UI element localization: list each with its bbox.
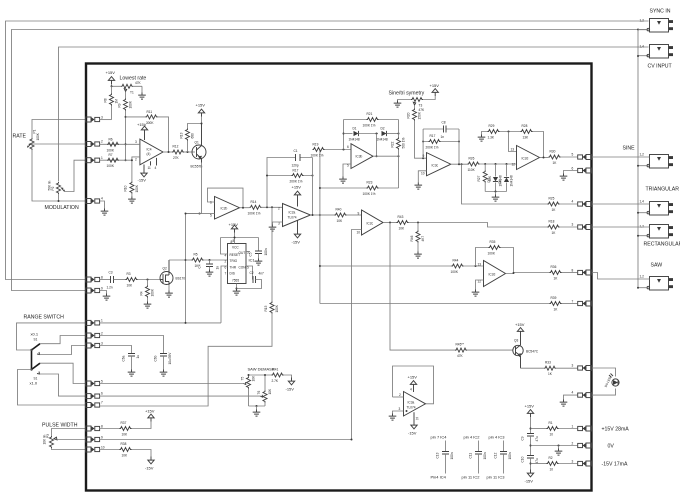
wire bus timing node xyxy=(185,214,187,323)
svg-text:13: 13 xyxy=(511,148,515,152)
svg-text:THR: THR xyxy=(230,266,237,270)
wire IC2a out to bus xyxy=(311,214,320,216)
svg-text:1n: 1n xyxy=(216,266,220,270)
diode D4 xyxy=(506,164,508,177)
svg-text:BC557B: BC557B xyxy=(191,165,203,169)
pin CN 2 0V xyxy=(578,443,592,448)
svg-text:100n: 100n xyxy=(264,248,268,255)
svg-text:R6: R6 xyxy=(109,137,113,141)
svg-text:+15V: +15V xyxy=(145,409,155,414)
svg-text:10K: 10K xyxy=(337,219,344,223)
wire 0V row xyxy=(531,445,578,447)
op-amp IC3b xyxy=(351,144,373,169)
wire IC2d out xyxy=(540,157,549,159)
svg-text:R21: R21 xyxy=(367,112,373,116)
wiper T3 xyxy=(413,102,415,105)
svg-text:47u: 47u xyxy=(535,458,539,464)
svg-text:RECTANGULAR: RECTANGULAR xyxy=(644,242,680,248)
op-amp IC3c xyxy=(427,153,451,176)
svg-text:13: 13 xyxy=(478,263,482,267)
svg-text:100K 1%: 100K 1% xyxy=(363,124,376,128)
svg-text:IC2a: IC2a xyxy=(289,211,296,215)
svg-text:-15V: -15V xyxy=(525,479,534,484)
svg-text:47K: 47K xyxy=(135,81,142,85)
svg-text:D3: D3 xyxy=(487,178,491,182)
pin CN 1 xyxy=(86,158,100,163)
wire IC3a feedback box xyxy=(393,366,434,404)
svg-text:Q1: Q1 xyxy=(195,141,199,145)
svg-text:200K 1%: 200K 1% xyxy=(290,180,303,184)
svg-text:T1: T1 xyxy=(130,91,134,95)
wire P1 top to pin xyxy=(32,120,86,139)
svg-text:C11: C11 xyxy=(469,453,473,459)
svg-text:1,2: 1,2 xyxy=(640,275,645,279)
svg-text:P2: P2 xyxy=(51,186,55,190)
svg-text:100K: 100K xyxy=(107,164,115,168)
wire cv sleeve stub xyxy=(638,55,649,57)
svg-text:2: 2 xyxy=(101,140,103,144)
svg-text:500 1%: 500 1% xyxy=(402,138,406,149)
svg-text:-15V: -15V xyxy=(408,431,417,436)
svg-text:R10: R10 xyxy=(124,185,128,191)
wire IC4d output xyxy=(163,151,172,153)
svg-text:100K: 100K xyxy=(275,304,279,312)
svg-text:R27: R27 xyxy=(477,175,481,181)
svg-text:R36: R36 xyxy=(551,265,557,269)
wire clamp bottom rail xyxy=(485,191,506,193)
wire P1 wiper to pin xyxy=(32,143,86,145)
op-amp IC2c comparator xyxy=(362,210,384,235)
resistor R17b xyxy=(423,141,459,143)
svg-text:8: 8 xyxy=(231,240,233,244)
svg-text:10: 10 xyxy=(421,172,425,176)
svg-text:8: 8 xyxy=(101,425,103,429)
resistor R11 xyxy=(126,116,146,118)
wire sync-in sleeve bus xyxy=(12,30,649,291)
resistor R21 xyxy=(344,119,399,121)
resistor R5 xyxy=(192,258,204,262)
svg-text:4: 4 xyxy=(572,200,574,204)
wire IC2b -in xyxy=(200,213,215,215)
power -15V IC4d xyxy=(143,165,145,170)
svg-text:R35: R35 xyxy=(490,240,496,244)
pin CN 8 saw xyxy=(578,270,592,275)
svg-text:+15V: +15V xyxy=(292,185,302,190)
svg-text:9: 9 xyxy=(423,154,425,158)
svg-text:pin 11 IC3: pin 11 IC3 xyxy=(487,475,506,480)
svg-text:-15V: -15V xyxy=(138,178,147,183)
svg-text:SAW DEMASK: SAW DEMASK xyxy=(248,367,275,372)
svg-text:2: 2 xyxy=(278,207,280,211)
svg-text:5: 5 xyxy=(101,380,103,384)
svg-text:Lowest rate: Lowest rate xyxy=(120,76,147,82)
capacitor C10b xyxy=(527,456,534,459)
svg-text:100K: 100K xyxy=(36,132,40,140)
svg-text:RANGE SWITCH: RANGE SWITCH xyxy=(24,315,65,321)
svg-text:11: 11 xyxy=(148,166,152,170)
svg-text:TL074: TL074 xyxy=(288,216,297,220)
svg-text:R29: R29 xyxy=(489,124,495,128)
diode D3 xyxy=(495,164,497,177)
svg-text:+15V: +15V xyxy=(430,83,440,88)
svg-text:Sine/tri symetry: Sine/tri symetry xyxy=(389,91,425,97)
pin CN 3 led xyxy=(578,366,592,371)
svg-text:1: 1 xyxy=(572,425,574,429)
wire C8 box verticals xyxy=(423,129,459,164)
svg-text:3: 3 xyxy=(572,223,574,227)
wire -15 row / resistor R2 xyxy=(531,463,547,465)
resistor R8 xyxy=(110,94,114,106)
resistor R43 xyxy=(397,221,409,225)
wire x0.1 top contact to pin2 xyxy=(40,336,86,344)
capacitor C6a xyxy=(131,350,133,354)
svg-text:100K 1%: 100K 1% xyxy=(363,192,376,196)
svg-text:R43: R43 xyxy=(398,215,404,219)
svg-text:100K: 100K xyxy=(129,100,133,108)
resistor R23 xyxy=(320,187,399,189)
resistor R33 xyxy=(544,366,556,370)
wire IC3a -in xyxy=(393,396,404,398)
wire triangle output tap xyxy=(462,164,548,204)
svg-text:1u: 1u xyxy=(136,355,140,359)
svg-text:pin 7 IC4: pin 7 IC4 xyxy=(431,435,448,440)
svg-text:R3: R3 xyxy=(127,272,131,276)
svg-text:R33: R33 xyxy=(545,361,551,365)
svg-text:10K: 10K xyxy=(122,454,129,458)
capacitor C9 xyxy=(527,434,534,437)
svg-text:-15V: -15V xyxy=(145,466,154,471)
svg-text:4: 4 xyxy=(572,391,574,395)
resistor R25 xyxy=(548,202,560,206)
node sleeve junction sync xyxy=(637,29,639,31)
pin CN 3 range xyxy=(86,343,100,348)
pin CN 1 range xyxy=(86,320,100,325)
wire pin1 to x0.1 bottom contact xyxy=(17,323,86,350)
svg-text:R13: R13 xyxy=(180,132,184,138)
wire R19 to IC3b xyxy=(325,149,352,151)
svg-text:2: 2 xyxy=(572,442,574,446)
svg-text:1,2: 1,2 xyxy=(640,225,645,229)
svg-text:6: 6 xyxy=(101,392,103,396)
svg-text:C6a: C6a xyxy=(122,355,126,361)
svg-text:2: 2 xyxy=(135,158,137,162)
wire diode clamp node xyxy=(480,163,517,165)
pin CN 5 sine xyxy=(578,155,592,160)
svg-text:1,2: 1,2 xyxy=(640,19,645,23)
svg-text:C6b: C6b xyxy=(154,355,158,361)
svg-text:R17: R17 xyxy=(293,169,299,173)
pin CN 10 pw xyxy=(86,447,100,452)
resistor R22 xyxy=(398,120,400,189)
svg-text:4: 4 xyxy=(101,197,103,201)
wire R15 feed vertical xyxy=(271,207,273,301)
wire P3 top to pin8 xyxy=(52,429,86,437)
module boundary xyxy=(86,64,592,491)
pin CN 7 range xyxy=(86,403,100,408)
wire pin9 pw row xyxy=(99,439,352,441)
svg-text:IC1: IC1 xyxy=(249,258,256,263)
svg-text:2: 2 xyxy=(101,332,103,336)
resistor R4 xyxy=(147,280,149,286)
svg-text:R20: R20 xyxy=(407,112,411,118)
svg-text:C12: C12 xyxy=(494,452,498,458)
svg-text:3: 3 xyxy=(399,407,401,411)
wire IC3b -in ground xyxy=(343,164,351,177)
wire P3 wiper to pin9 xyxy=(57,439,86,441)
capacitor C2 xyxy=(246,266,253,280)
ground IC2a +in xyxy=(273,222,283,225)
resistor R35 xyxy=(476,248,514,273)
wire demask bottom rail xyxy=(249,405,266,407)
svg-text:4: 4 xyxy=(410,388,412,392)
power -15V R41 xyxy=(288,378,294,385)
svg-text:x1.0: x1.0 xyxy=(30,381,38,386)
op-amp IC4d xyxy=(140,139,163,165)
svg-text:150K: 150K xyxy=(418,111,422,119)
svg-text:RATE: RATE xyxy=(13,134,27,140)
svg-text:100K: 100K xyxy=(107,148,115,152)
svg-text:C4: C4 xyxy=(198,264,202,268)
resistor R6 xyxy=(107,142,119,146)
svg-text:IC2c: IC2c xyxy=(367,222,374,226)
pin CN 3 -15V xyxy=(578,461,592,466)
pin CN 4 xyxy=(86,199,100,204)
pin CN 4 led gnd xyxy=(578,393,592,398)
svg-text:10K: 10K xyxy=(127,284,134,288)
resistor R10 xyxy=(131,160,133,181)
wire IC3c +in ground xyxy=(418,171,426,183)
diode D2 xyxy=(382,131,387,136)
svg-text:R40: R40 xyxy=(336,208,342,212)
svg-text:7: 7 xyxy=(225,272,227,276)
wire IC3b feedback left vertical xyxy=(343,120,345,150)
wire IC2d out xyxy=(506,273,550,274)
pin CN 6 range xyxy=(86,394,100,399)
svg-text:-15V: -15V xyxy=(292,240,301,245)
pin CN 7 xyxy=(578,301,592,306)
power -15V R38 xyxy=(148,457,154,464)
wire IC2b out xyxy=(240,207,250,209)
svg-text:9: 9 xyxy=(101,436,103,440)
svg-text:+15V: +15V xyxy=(196,103,206,108)
op-amp IC2b xyxy=(215,197,240,220)
wire rect to LED driver xyxy=(390,223,455,351)
svg-text:680: 680 xyxy=(191,133,195,139)
wire rect row to R18b xyxy=(409,223,548,228)
svg-text:D4: D4 xyxy=(498,179,502,183)
svg-text:1M: 1M xyxy=(115,99,119,104)
svg-text:C13: C13 xyxy=(436,452,440,458)
svg-text:6: 6 xyxy=(347,145,349,149)
svg-text:4: 4 xyxy=(155,166,157,170)
svg-text:R41: R41 xyxy=(273,368,279,372)
svg-text:R2: R2 xyxy=(549,456,553,460)
svg-text:R30: R30 xyxy=(550,150,556,154)
resistor R18 xyxy=(413,109,417,121)
resistor R27 xyxy=(484,164,486,171)
wire IC2b feedback xyxy=(208,188,244,208)
wire triangle bus vertical xyxy=(319,150,321,304)
svg-text:BC547C: BC547C xyxy=(526,350,539,354)
svg-text:10K: 10K xyxy=(122,433,129,437)
resistor R46 xyxy=(417,223,419,231)
svg-text:200K 1%: 200K 1% xyxy=(426,146,439,150)
svg-text:120p: 120p xyxy=(292,164,299,168)
svg-text:P3: P3 xyxy=(46,434,50,438)
capacitor C5 xyxy=(258,238,260,252)
svg-text:1N4148: 1N4148 xyxy=(349,138,360,142)
svg-text:100n: 100n xyxy=(508,452,512,459)
wire P2 bottom to rail xyxy=(58,194,60,201)
svg-text:5: 5 xyxy=(572,153,574,157)
resistor R37 xyxy=(120,427,132,431)
pin CN 2 xyxy=(86,142,100,147)
svg-text:10K: 10K xyxy=(268,388,272,395)
svg-text:C5: C5 xyxy=(249,252,253,256)
wire THR to pin1 row xyxy=(221,266,228,323)
svg-text:C1: C1 xyxy=(294,149,298,153)
svg-text:-15V: -15V xyxy=(286,387,295,392)
resistor R26 xyxy=(468,162,480,166)
svg-text:P1: P1 xyxy=(33,129,37,133)
svg-text:+15V 28mA: +15V 28mA xyxy=(602,427,630,433)
resistor R12 xyxy=(172,150,184,154)
svg-text:10: 10 xyxy=(550,433,554,437)
svg-text:IC2d: IC2d xyxy=(522,157,529,161)
wire VCC rail xyxy=(221,237,259,239)
svg-text:1.2n: 1.2n xyxy=(107,286,113,290)
svg-text:0V: 0V xyxy=(608,444,615,450)
resistor R28 xyxy=(521,130,533,134)
wire P3 bottom to pin10 xyxy=(52,448,86,450)
wire R3 to gate xyxy=(138,279,161,281)
svg-text:100K: 100K xyxy=(451,270,459,274)
svg-text:6: 6 xyxy=(572,167,574,171)
wire +15 row / resistor R1 xyxy=(531,428,547,430)
transistor Q2 BS170 xyxy=(160,272,173,285)
svg-text:x0.1: x0.1 xyxy=(31,332,39,337)
svg-text:TRIANGULAR: TRIANGULAR xyxy=(646,187,680,193)
svg-text:10: 10 xyxy=(101,446,105,450)
svg-text:1: 1 xyxy=(101,319,103,323)
svg-text:100K: 100K xyxy=(488,252,496,256)
resistor R36 xyxy=(550,271,562,275)
wire +15 rail xyxy=(112,84,143,86)
svg-text:pin 4 IC3: pin 4 IC3 xyxy=(489,435,506,440)
svg-text:R19: R19 xyxy=(313,143,319,147)
svg-text:SAW: SAW xyxy=(651,263,663,269)
svg-text:5: 5 xyxy=(210,214,212,218)
svg-text:27K: 27K xyxy=(173,156,180,160)
svg-text:3: 3 xyxy=(135,140,137,144)
wire pin2 row xyxy=(99,336,164,350)
wire saw rail xyxy=(320,265,452,267)
svg-text:S1: S1 xyxy=(34,338,38,342)
pin CN 8 sync xyxy=(86,277,100,282)
wire IC3c out xyxy=(451,163,468,165)
svg-text:D1: D1 xyxy=(353,127,357,131)
svg-text:pin 4 IC2: pin 4 IC2 xyxy=(464,435,481,440)
svg-text:1,4: 1,4 xyxy=(640,200,645,204)
svg-text:C3: C3 xyxy=(109,271,113,275)
svg-text:R17: R17 xyxy=(430,134,436,138)
wire Q1 collector down xyxy=(185,163,202,214)
power -15V IC3a xyxy=(413,412,415,421)
svg-text:D2: D2 xyxy=(381,127,385,131)
svg-text:R4: R4 xyxy=(140,291,144,295)
svg-text:C9: C9 xyxy=(521,436,525,440)
pin CN 9 pw xyxy=(86,437,100,442)
svg-text:10: 10 xyxy=(357,231,361,235)
svg-text:R7: R7 xyxy=(109,153,113,157)
svg-text:47K: 47K xyxy=(457,354,464,358)
svg-text:100K: 100K xyxy=(135,184,139,192)
wire R6 row + input xyxy=(99,143,140,145)
resistor R17 integrator xyxy=(267,175,313,177)
svg-text:IC3b: IC3b xyxy=(356,155,363,159)
svg-text:-15V 17mA: -15V 17mA xyxy=(602,462,628,468)
svg-text:100K 1%: 100K 1% xyxy=(248,211,261,215)
transistor Q3 BC547 xyxy=(513,345,523,355)
capacitor C8 xyxy=(423,128,459,130)
LED D5 xyxy=(592,368,616,377)
svg-text:100K: 100K xyxy=(151,288,155,296)
ground pin4 inside xyxy=(99,201,105,209)
svg-text:C8: C8 xyxy=(442,121,446,125)
svg-text:10: 10 xyxy=(550,468,554,472)
svg-text:R8: R8 xyxy=(104,98,108,102)
resistor R18b rect out xyxy=(548,225,560,229)
ground IC1 GND xyxy=(236,284,238,289)
svg-text:CV INPUT: CV INPUT xyxy=(648,64,673,70)
wire pin3 row xyxy=(99,119,112,121)
pin CN 3 rect xyxy=(578,225,592,230)
svg-text:2.7K: 2.7K xyxy=(272,379,279,383)
pin CN 8 pw xyxy=(86,426,100,431)
wire pole2 to pin6 xyxy=(40,374,86,396)
svg-text:47K: 47K xyxy=(419,108,426,112)
wire IC2c out xyxy=(383,222,397,224)
svg-text:11: 11 xyxy=(416,417,420,421)
svg-text:R1: R1 xyxy=(549,421,553,425)
svg-text:3: 3 xyxy=(101,116,103,120)
svg-text:R14: R14 xyxy=(251,200,257,204)
svg-text:12: 12 xyxy=(512,163,516,167)
svg-text:IC4: IC4 xyxy=(147,148,152,152)
wire diode mid to output xyxy=(359,133,379,135)
svg-text:+15V: +15V xyxy=(408,375,418,380)
svg-text:1,4: 1,4 xyxy=(640,45,645,49)
svg-text:Pin4 IC4: Pin4 IC4 xyxy=(431,475,447,480)
resistor R14 xyxy=(250,205,262,209)
ground pin4 led xyxy=(564,395,578,399)
svg-text:100K 1%: 100K 1% xyxy=(311,154,324,158)
wire pin10 pw row xyxy=(99,449,120,451)
svg-text:SYNC IN: SYNC IN xyxy=(650,9,671,15)
wire pole1 to pin3 xyxy=(40,346,86,355)
op-amp IC2d saw xyxy=(484,261,506,287)
svg-text:3: 3 xyxy=(572,460,574,464)
svg-text:1.3K: 1.3K xyxy=(488,136,495,140)
svg-text:1: 1 xyxy=(101,156,103,160)
svg-text:R12: R12 xyxy=(173,145,179,149)
ground Q2 source xyxy=(168,285,170,291)
power -15V entry arrow xyxy=(527,470,533,477)
IC IC1 7555 xyxy=(228,244,247,284)
svg-text:47u: 47u xyxy=(535,436,539,442)
resistor R39 xyxy=(550,302,562,306)
svg-text:+15V: +15V xyxy=(137,122,147,127)
